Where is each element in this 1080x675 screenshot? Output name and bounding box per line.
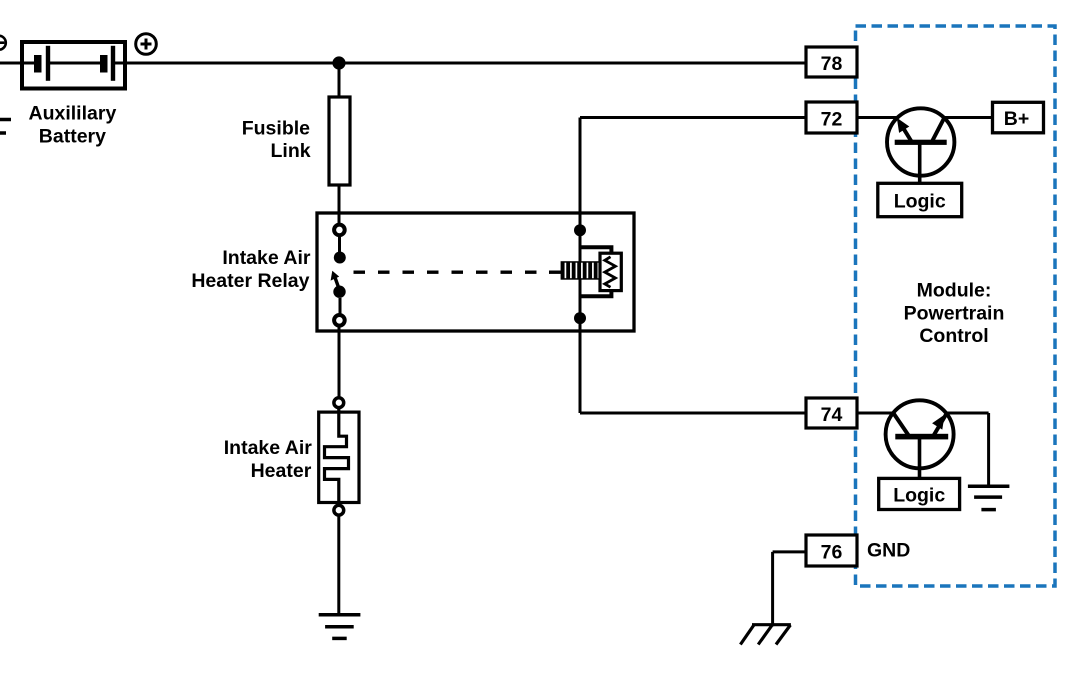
svg-text:Powertrain: Powertrain bbox=[904, 302, 1005, 324]
svg-text:72: 72 bbox=[821, 109, 843, 131]
svg-text:GND: GND bbox=[867, 540, 910, 562]
svg-text:78: 78 bbox=[821, 53, 843, 75]
svg-text:76: 76 bbox=[821, 542, 843, 564]
svg-text:74: 74 bbox=[821, 404, 843, 426]
svg-text:Logic: Logic bbox=[893, 485, 945, 507]
svg-text:Auxililary: Auxililary bbox=[29, 102, 117, 124]
svg-text:Heater Relay: Heater Relay bbox=[191, 270, 309, 292]
svg-text:Intake Air: Intake Air bbox=[224, 437, 313, 459]
svg-text:Logic: Logic bbox=[894, 191, 946, 213]
svg-text:Control: Control bbox=[919, 325, 988, 347]
svg-text:Module:: Module: bbox=[917, 280, 992, 302]
svg-text:B+: B+ bbox=[1004, 108, 1029, 130]
svg-text:Fusible: Fusible bbox=[242, 118, 310, 140]
svg-text:Intake Air: Intake Air bbox=[222, 247, 311, 269]
svg-text:Link: Link bbox=[271, 140, 311, 162]
svg-text:Heater: Heater bbox=[251, 460, 312, 482]
svg-text:Battery: Battery bbox=[39, 125, 106, 147]
